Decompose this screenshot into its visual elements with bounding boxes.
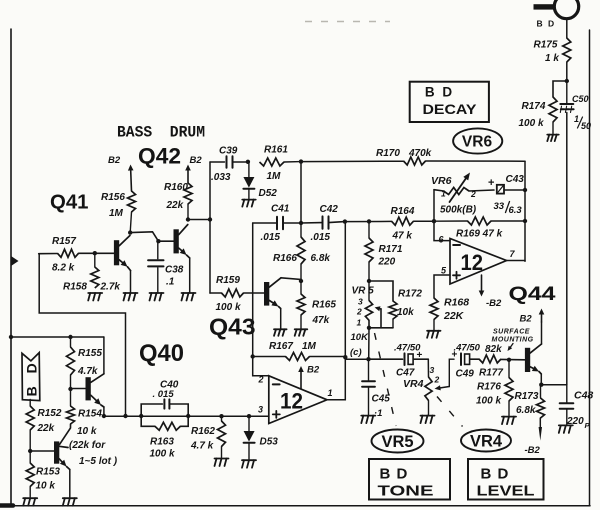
node R155/R154/base bbox=[68, 387, 72, 391]
wire R157 to Q41 base bbox=[79, 252, 115, 254]
oval VR5 bbox=[372, 430, 424, 453]
node Q42 collector bbox=[186, 217, 190, 221]
svg-text:TONE: TONE bbox=[378, 483, 434, 500]
svg-text:D52: D52 bbox=[259, 188, 278, 199]
jack BD (circle) bbox=[554, 0, 578, 19]
resistor R171 bbox=[368, 221, 370, 238]
svg-text:.033: .033 bbox=[211, 172, 231, 183]
svg-text:500k(B): 500k(B) bbox=[440, 205, 477, 216]
svg-text:1M: 1M bbox=[267, 171, 282, 182]
svg-text:VR5: VR5 bbox=[381, 433, 413, 451]
resistor R172 bbox=[369, 281, 393, 301]
-B2 arrow upper op-amp bbox=[481, 275, 483, 291]
ground C45 bbox=[361, 415, 375, 417]
wire VR4 bottom to ground bbox=[428, 401, 430, 415]
wire base of Q40a bbox=[71, 388, 87, 390]
ground R158 bbox=[88, 292, 102, 294]
ground R168 bbox=[427, 330, 440, 332]
svg-text:. 015: . 015 bbox=[153, 389, 175, 400]
svg-text:C43: C43 bbox=[506, 174, 525, 185]
svg-text:C50: C50 bbox=[572, 94, 589, 104]
svg-text:12: 12 bbox=[461, 250, 484, 275]
-B2 arrow below R173 bbox=[539, 418, 541, 428]
svg-text:B2: B2 bbox=[108, 155, 121, 166]
resistor R161 bbox=[260, 158, 285, 166]
svg-text:2: 2 bbox=[470, 189, 476, 199]
wire R160 to Q42 collector node bbox=[187, 204, 189, 220]
svg-text:B D: B D bbox=[537, 19, 556, 29]
svg-text:R177: R177 bbox=[479, 368, 503, 379]
wire Q40b emitter to ground bbox=[69, 470, 71, 498]
svg-text:B D: B D bbox=[481, 466, 510, 483]
resistor R158 bbox=[94, 253, 96, 267]
svg-text:R170: R170 bbox=[376, 148, 400, 159]
svg-text:Q40: Q40 bbox=[139, 340, 184, 367]
svg-text:R154: R154 bbox=[78, 409, 102, 420]
svg-text:10k: 10k bbox=[397, 307, 414, 318]
svg-text:100 k: 100 k bbox=[476, 396, 501, 407]
svg-text:6.3: 6.3 bbox=[509, 205, 523, 216]
svg-text:VR6: VR6 bbox=[431, 175, 452, 187]
svg-text:R159: R159 bbox=[216, 275, 240, 286]
svg-text:C38: C38 bbox=[165, 265, 184, 276]
svg-text:.47/50: .47/50 bbox=[454, 343, 481, 354]
svg-text:33: 33 bbox=[494, 201, 505, 212]
resistor R168 bbox=[430, 298, 438, 320]
wire Q42 emitter to ground bbox=[189, 258, 191, 292]
potentiometer VR4 bbox=[427, 359, 429, 377]
wire rail to Q40 collector bbox=[11, 336, 104, 338]
svg-text:1: 1 bbox=[441, 189, 446, 199]
ground R165 bbox=[295, 328, 308, 330]
wire Q40b base row bbox=[30, 450, 54, 452]
ground Q43 emitter bbox=[274, 328, 287, 330]
svg-text:R173: R173 bbox=[515, 391, 539, 402]
wire pin 7 output bbox=[507, 260, 526, 262]
svg-text:R174: R174 bbox=[522, 101, 546, 112]
node R155 top bbox=[68, 335, 72, 339]
node Q43 collector / R165 bbox=[299, 279, 303, 283]
node R169 right bbox=[523, 219, 527, 223]
svg-text:22K: 22K bbox=[443, 310, 465, 322]
node R171 top bbox=[367, 219, 371, 223]
node C40 block right bbox=[186, 414, 190, 418]
ground C48 bbox=[559, 424, 573, 426]
svg-text:(c): (c) bbox=[350, 347, 362, 358]
wire jack to R175 bbox=[566, 19, 568, 38]
wire to C39 bbox=[210, 161, 225, 163]
resistor R153 bbox=[29, 451, 31, 463]
node R164/R169/pin6 bbox=[432, 219, 436, 223]
resistor R155 bbox=[70, 337, 72, 347]
resistor R154 bbox=[70, 389, 72, 406]
wire C39 column (down to R159) bbox=[209, 162, 211, 293]
svg-text:220: 220 bbox=[378, 257, 396, 268]
svg-text:R156: R156 bbox=[101, 192, 125, 203]
node R162 top bbox=[219, 414, 223, 418]
svg-text:VR4: VR4 bbox=[403, 378, 424, 390]
svg-text:.015: .015 bbox=[311, 232, 331, 243]
svg-text:C47: C47 bbox=[396, 368, 415, 379]
resistor R162 bbox=[221, 416, 223, 421]
capacitor C38 bbox=[157, 241, 159, 259]
svg-text:R166: R166 bbox=[273, 253, 297, 264]
svg-text:R158: R158 bbox=[63, 282, 87, 293]
svg-text:3: 3 bbox=[358, 297, 363, 307]
svg-text:(22k for: (22k for bbox=[69, 440, 106, 451]
node R175/R174/C50 bbox=[565, 79, 569, 83]
rail direction arrow bbox=[11, 256, 19, 266]
resistor R156 bbox=[128, 191, 136, 212]
capacitor C40 (parallel branch top) bbox=[141, 404, 162, 416]
ground D53 bbox=[242, 459, 256, 461]
svg-text:R155: R155 bbox=[78, 348, 102, 359]
ground Q41 emitter bbox=[124, 292, 138, 294]
capacitor C47 bbox=[369, 358, 403, 360]
node R161/R170/C41 column bbox=[299, 159, 303, 163]
wire bottom border bbox=[0, 505, 590, 507]
wire noninverting input row bbox=[104, 415, 269, 417]
svg-text:Q42: Q42 bbox=[138, 144, 181, 169]
transistor Q40a bbox=[86, 377, 91, 400]
resistor R175 bbox=[563, 38, 571, 62]
svg-text:R168: R168 bbox=[444, 297, 469, 309]
svg-text:12: 12 bbox=[280, 389, 303, 414]
resistor R169 bbox=[468, 217, 492, 225]
svg-text:B2: B2 bbox=[190, 155, 203, 166]
svg-text:100 k: 100 k bbox=[519, 118, 544, 129]
svg-text:.015: .015 bbox=[261, 232, 281, 243]
svg-text:8.2 k: 8.2 k bbox=[52, 263, 75, 274]
svg-text:-B2: -B2 bbox=[486, 298, 502, 309]
ground R176 bbox=[502, 416, 516, 418]
svg-text:C48: C48 bbox=[574, 390, 593, 402]
svg-text:·1: ·1 bbox=[374, 408, 382, 419]
resistor R159 bbox=[222, 289, 244, 297]
capacitor C50 bbox=[566, 81, 568, 103]
node feedback column to row bbox=[123, 414, 127, 418]
svg-text:.1: .1 bbox=[166, 277, 175, 288]
resistor R157 bbox=[58, 249, 79, 257]
svg-text:VR4: VR4 bbox=[470, 433, 503, 451]
node C40 block left bbox=[139, 414, 143, 418]
svg-text:R163: R163 bbox=[150, 437, 174, 448]
svg-text:R172: R172 bbox=[398, 289, 422, 300]
wire emitter node to output column bbox=[541, 384, 567, 386]
potentiometer VR5 bbox=[368, 281, 370, 300]
wire left rail bbox=[10, 29, 12, 506]
node D52 / R161 bbox=[246, 160, 250, 164]
svg-text:2: 2 bbox=[434, 375, 440, 385]
capacitor C41 bbox=[253, 222, 277, 224]
transistor Q43 bbox=[264, 282, 269, 306]
svg-text:4.7k: 4.7k bbox=[77, 366, 98, 377]
wire Q42 collector to C39 column bbox=[188, 219, 210, 221]
svg-text:R161: R161 bbox=[264, 145, 288, 156]
node Q40 emitter to row bbox=[102, 414, 106, 418]
wire flag to R152 bbox=[29, 400, 31, 407]
svg-text:22k: 22k bbox=[166, 200, 184, 211]
svg-text:B D: B D bbox=[425, 85, 454, 100]
svg-text:R164: R164 bbox=[391, 206, 415, 217]
wire Q40a emitter down bbox=[103, 407, 105, 416]
svg-text:10K: 10K bbox=[351, 332, 370, 343]
wire R154 to Q40b collector bbox=[60, 424, 71, 445]
svg-text:R162: R162 bbox=[191, 426, 215, 437]
node D53 top bbox=[247, 414, 251, 418]
svg-text:C49: C49 bbox=[456, 369, 475, 380]
box BD TONE bbox=[369, 459, 450, 500]
svg-text:82k: 82k bbox=[485, 344, 502, 355]
wire R159 to Q43 base bbox=[244, 292, 265, 294]
resistor R167 bbox=[253, 356, 286, 358]
dashed link VR4 bbox=[437, 397, 463, 427]
wire pin 6 bbox=[434, 221, 450, 240]
node R152/R153/base bbox=[28, 449, 32, 453]
dashed link VR5 bbox=[375, 333, 397, 426]
diode D52 bbox=[248, 162, 250, 177]
svg-text:DECAY: DECAY bbox=[423, 102, 477, 117]
node rail to R155 row bbox=[9, 335, 13, 339]
B2 arrow above R156 bbox=[130, 171, 133, 192]
scan smudge bbox=[305, 21, 390, 23]
node R167 left bbox=[251, 354, 255, 358]
diode D53 bbox=[248, 416, 250, 430]
capacitor C48 bbox=[566, 385, 568, 403]
wire output column (C50 to Q44 emitter node) bbox=[566, 113, 568, 386]
wire C47 row start bbox=[345, 358, 368, 360]
svg-text:100 k: 100 k bbox=[216, 302, 241, 313]
resistor R165 bbox=[300, 281, 302, 294]
svg-text:2: 2 bbox=[356, 307, 362, 317]
op-amp U12a (lower) bbox=[269, 376, 327, 424]
svg-text:50: 50 bbox=[581, 121, 591, 131]
wire VR5 bottom to C47 row bbox=[368, 328, 370, 359]
wire R164 row bbox=[345, 220, 392, 222]
svg-text:R171: R171 bbox=[379, 244, 403, 255]
svg-text:R176: R176 bbox=[477, 382, 501, 393]
svg-text:+: + bbox=[417, 350, 423, 361]
label flag B D bbox=[22, 353, 40, 401]
svg-text:3: 3 bbox=[430, 365, 435, 375]
ground VR4 bbox=[421, 415, 435, 417]
resistor R163 (parallel branch bottom) bbox=[141, 416, 155, 426]
ground Q40b emitter bbox=[63, 497, 77, 499]
resistor R174 bbox=[549, 97, 557, 122]
transistor Q44 bbox=[525, 348, 530, 372]
resistor R173 bbox=[540, 385, 542, 398]
node C41/C42 mid bbox=[299, 221, 303, 225]
transistor Q41 bbox=[114, 240, 119, 265]
svg-text:R165: R165 bbox=[312, 300, 336, 311]
wire R159 row bbox=[210, 292, 222, 294]
wire node to R174 bbox=[553, 81, 567, 97]
node Q44 emitter bbox=[539, 383, 543, 387]
oval VR4 bbox=[461, 430, 511, 452]
svg-text:2.7k: 2.7k bbox=[100, 282, 121, 293]
resistor R170 bbox=[404, 157, 426, 165]
wire right border bbox=[589, 30, 591, 506]
svg-text:R160: R160 bbox=[164, 182, 188, 193]
box BD DECAY bbox=[410, 82, 489, 122]
svg-text:1: 1 bbox=[357, 318, 362, 328]
svg-text:1: 1 bbox=[574, 114, 579, 124]
node R158 top bbox=[93, 251, 97, 255]
node C42/output column bbox=[343, 219, 347, 223]
wire pin2 column (C41 to op-amp) bbox=[253, 223, 269, 376]
svg-text:B D: B D bbox=[24, 359, 40, 397]
svg-text:B2: B2 bbox=[520, 314, 533, 325]
svg-text:LEVEL: LEVEL bbox=[477, 483, 535, 500]
transistor Q40b bbox=[54, 441, 59, 463]
node VR5 wiper to row bbox=[366, 357, 370, 361]
wire R156 to Q41 collector node bbox=[130, 212, 131, 233]
svg-text:47k: 47k bbox=[312, 315, 330, 326]
ground D52 bbox=[242, 199, 255, 201]
resistor R166 bbox=[300, 223, 302, 237]
svg-text:MOUNTING: MOUNTING bbox=[492, 337, 534, 344]
svg-text:-B2: -B2 bbox=[525, 445, 541, 456]
wire Q43 emitter to ground bbox=[280, 309, 282, 329]
svg-text:Q44: Q44 bbox=[509, 283, 556, 305]
svg-text:470k: 470k bbox=[408, 148, 432, 159]
node R171/VR5/R172 bbox=[367, 279, 371, 283]
svg-text:B D: B D bbox=[380, 466, 409, 483]
wire R164 to node bbox=[414, 220, 435, 222]
svg-text:R152: R152 bbox=[38, 408, 62, 419]
B2 arrow op-amp lower bbox=[300, 372, 302, 389]
svg-text:Q41: Q41 bbox=[50, 191, 89, 214]
wire Q43 collector bbox=[281, 278, 301, 281]
svg-text:3: 3 bbox=[258, 405, 263, 415]
svg-text:R169 47 k: R169 47 k bbox=[456, 229, 503, 240]
svg-text:10 k: 10 k bbox=[77, 426, 97, 437]
box BD LEVEL bbox=[468, 459, 544, 500]
svg-text:10 k: 10 k bbox=[36, 481, 56, 492]
resistor R160 bbox=[184, 183, 192, 204]
potentiometer VR6 bbox=[433, 190, 435, 222]
capacitor C42 bbox=[301, 222, 322, 224]
wire Q41 base row bbox=[39, 253, 58, 255]
svg-text:SURFACE: SURFACE bbox=[493, 329, 530, 336]
svg-text:C41: C41 bbox=[271, 204, 290, 215]
B2 arrow above R160 bbox=[187, 171, 189, 184]
wire Q44 collector up bbox=[541, 322, 543, 344]
B2 arrow Q44 collector bbox=[541, 315, 543, 323]
wire bridged-T column bbox=[300, 162, 302, 223]
wire feedback column x=526 bbox=[524, 161, 526, 261]
wire R175 to node bbox=[566, 62, 568, 81]
svg-text:1 k: 1 k bbox=[545, 53, 559, 64]
ground R153 bbox=[23, 497, 37, 499]
svg-text:1M: 1M bbox=[302, 341, 317, 352]
node Q41 collector / Q42 base bbox=[128, 230, 132, 234]
wire output column lower op-amp bbox=[327, 222, 345, 400]
svg-text:47 k: 47 k bbox=[392, 231, 413, 242]
wire Q42 base bbox=[130, 232, 173, 241]
svg-text:22k: 22k bbox=[37, 423, 55, 434]
svg-text:R153: R153 bbox=[36, 467, 60, 478]
op-amp U12b (upper) bbox=[450, 239, 507, 285]
resistor R152 bbox=[26, 406, 34, 430]
svg-text:C45: C45 bbox=[372, 394, 391, 405]
svg-text:R175: R175 bbox=[534, 40, 558, 51]
svg-text:C39: C39 bbox=[219, 146, 238, 157]
wire pin 5 / R168 bbox=[434, 275, 450, 298]
wire Q44 emitter down bbox=[540, 374, 542, 385]
ground C38 bbox=[150, 292, 164, 294]
resistor R177 bbox=[479, 355, 501, 363]
svg-text:6.8k: 6.8k bbox=[311, 253, 331, 264]
svg-text:1~5 lot ): 1~5 lot ) bbox=[79, 456, 118, 467]
node R167 right / output column bbox=[343, 355, 347, 359]
transistor Q42 bbox=[174, 229, 179, 253]
svg-text:100 k: 100 k bbox=[150, 449, 175, 460]
wire R170 row bbox=[301, 160, 404, 162]
svg-text:R157: R157 bbox=[52, 236, 76, 247]
ground R174 bbox=[547, 134, 558, 136]
wire Q40a collector up bbox=[103, 337, 105, 374]
svg-text:+: + bbox=[488, 177, 494, 189]
capacitor C45 bbox=[368, 359, 370, 380]
oval VR6 bbox=[453, 128, 502, 153]
wire Q41 emitter to ground bbox=[130, 271, 132, 293]
svg-text:VR6: VR6 bbox=[462, 134, 493, 151]
resistor R176 bbox=[508, 360, 510, 378]
resistor R164 bbox=[392, 217, 414, 225]
svg-text:1: 1 bbox=[328, 388, 333, 398]
connector stub to jack bbox=[534, 4, 556, 9]
svg-text:C42: C42 bbox=[320, 204, 339, 215]
svg-text:6.8k: 6.8k bbox=[516, 405, 536, 416]
svg-text:R167: R167 bbox=[269, 341, 293, 352]
wire R174 to ground bbox=[552, 122, 554, 134]
node C38 top bbox=[156, 239, 160, 243]
svg-text:D53: D53 bbox=[260, 437, 279, 448]
capacitor C39 bbox=[226, 156, 228, 168]
wire R161 to node bbox=[284, 161, 301, 163]
ground Q42 emitter bbox=[182, 292, 196, 294]
wire feedback loop from R157 bbox=[39, 254, 125, 416]
svg-text:Q43: Q43 bbox=[209, 314, 256, 340]
node C43 right bbox=[523, 188, 527, 192]
svg-text:4.7 k: 4.7 k bbox=[190, 441, 214, 452]
ground R162 bbox=[215, 458, 229, 460]
svg-text:1M: 1M bbox=[109, 208, 124, 219]
svg-text:BASS DRUM: BASS DRUM bbox=[117, 124, 205, 142]
node R177/R176/Q44 base bbox=[507, 358, 511, 362]
svg-text:B2: B2 bbox=[307, 365, 320, 376]
svg-text:VR 5: VR 5 bbox=[352, 286, 375, 297]
